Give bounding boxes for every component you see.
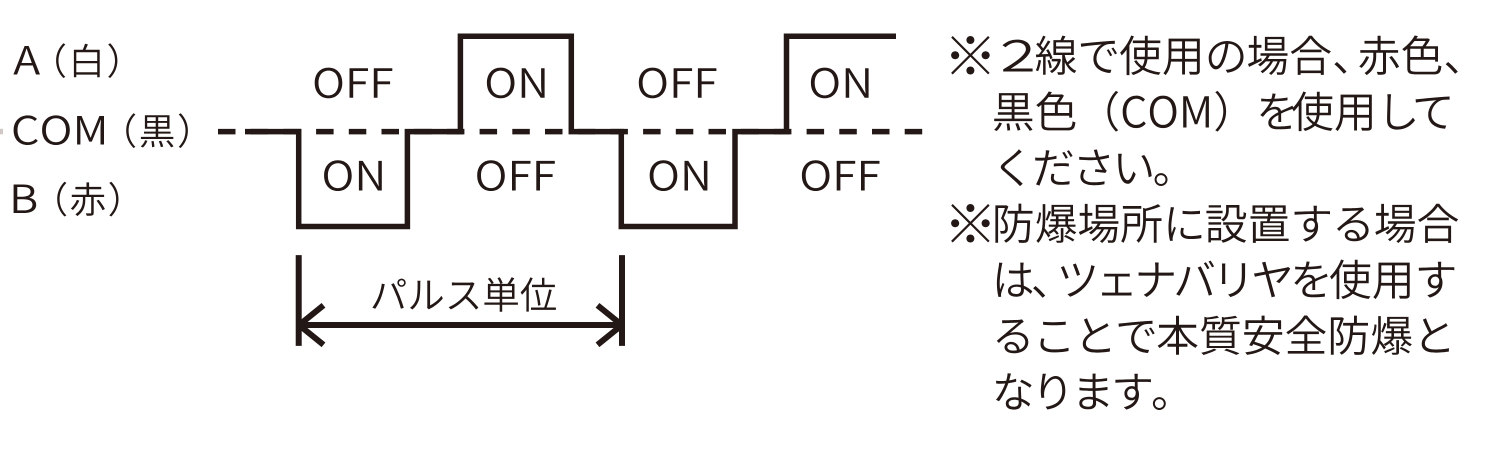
COM dashed baseline — [218, 129, 923, 135]
note line 4 — [951, 204, 1458, 243]
label A paren (shiro) — [56, 43, 117, 78]
label COM paren (kuro) — [126, 113, 188, 148]
note line 3 — [1001, 149, 1168, 186]
state ON (B, pulse 2) — [650, 160, 708, 191]
label COM (black wire) — [14, 115, 104, 145]
left edge dash fragment — [0, 129, 3, 135]
state ON (B, pulse 1) — [324, 160, 382, 191]
waveform A/B pulse train — [245, 36, 896, 226]
note line 7 — [996, 373, 1166, 410]
dimension tick right — [619, 255, 625, 346]
note line 6 — [997, 316, 1449, 356]
label B paren (aka) — [57, 182, 118, 217]
state OFF (B, pulse 2) — [802, 160, 880, 191]
state OFF (B, pulse 1) — [477, 160, 555, 191]
state OFF (A, pulse 1) — [315, 68, 393, 99]
dimension label pulse-unit — [372, 277, 556, 312]
dimension double arrow — [301, 322, 620, 328]
label B (red wire) — [14, 185, 37, 214]
state ON (A, pulse 2) — [811, 68, 869, 99]
state OFF (A, pulse 2) — [639, 68, 717, 99]
dimension tick left — [296, 255, 302, 346]
label A (white wire) — [13, 46, 40, 75]
note line 2 — [994, 91, 1450, 132]
state ON (A, pulse 1) — [487, 68, 545, 99]
note line 1 — [951, 36, 1458, 76]
note line 5 — [997, 260, 1454, 300]
